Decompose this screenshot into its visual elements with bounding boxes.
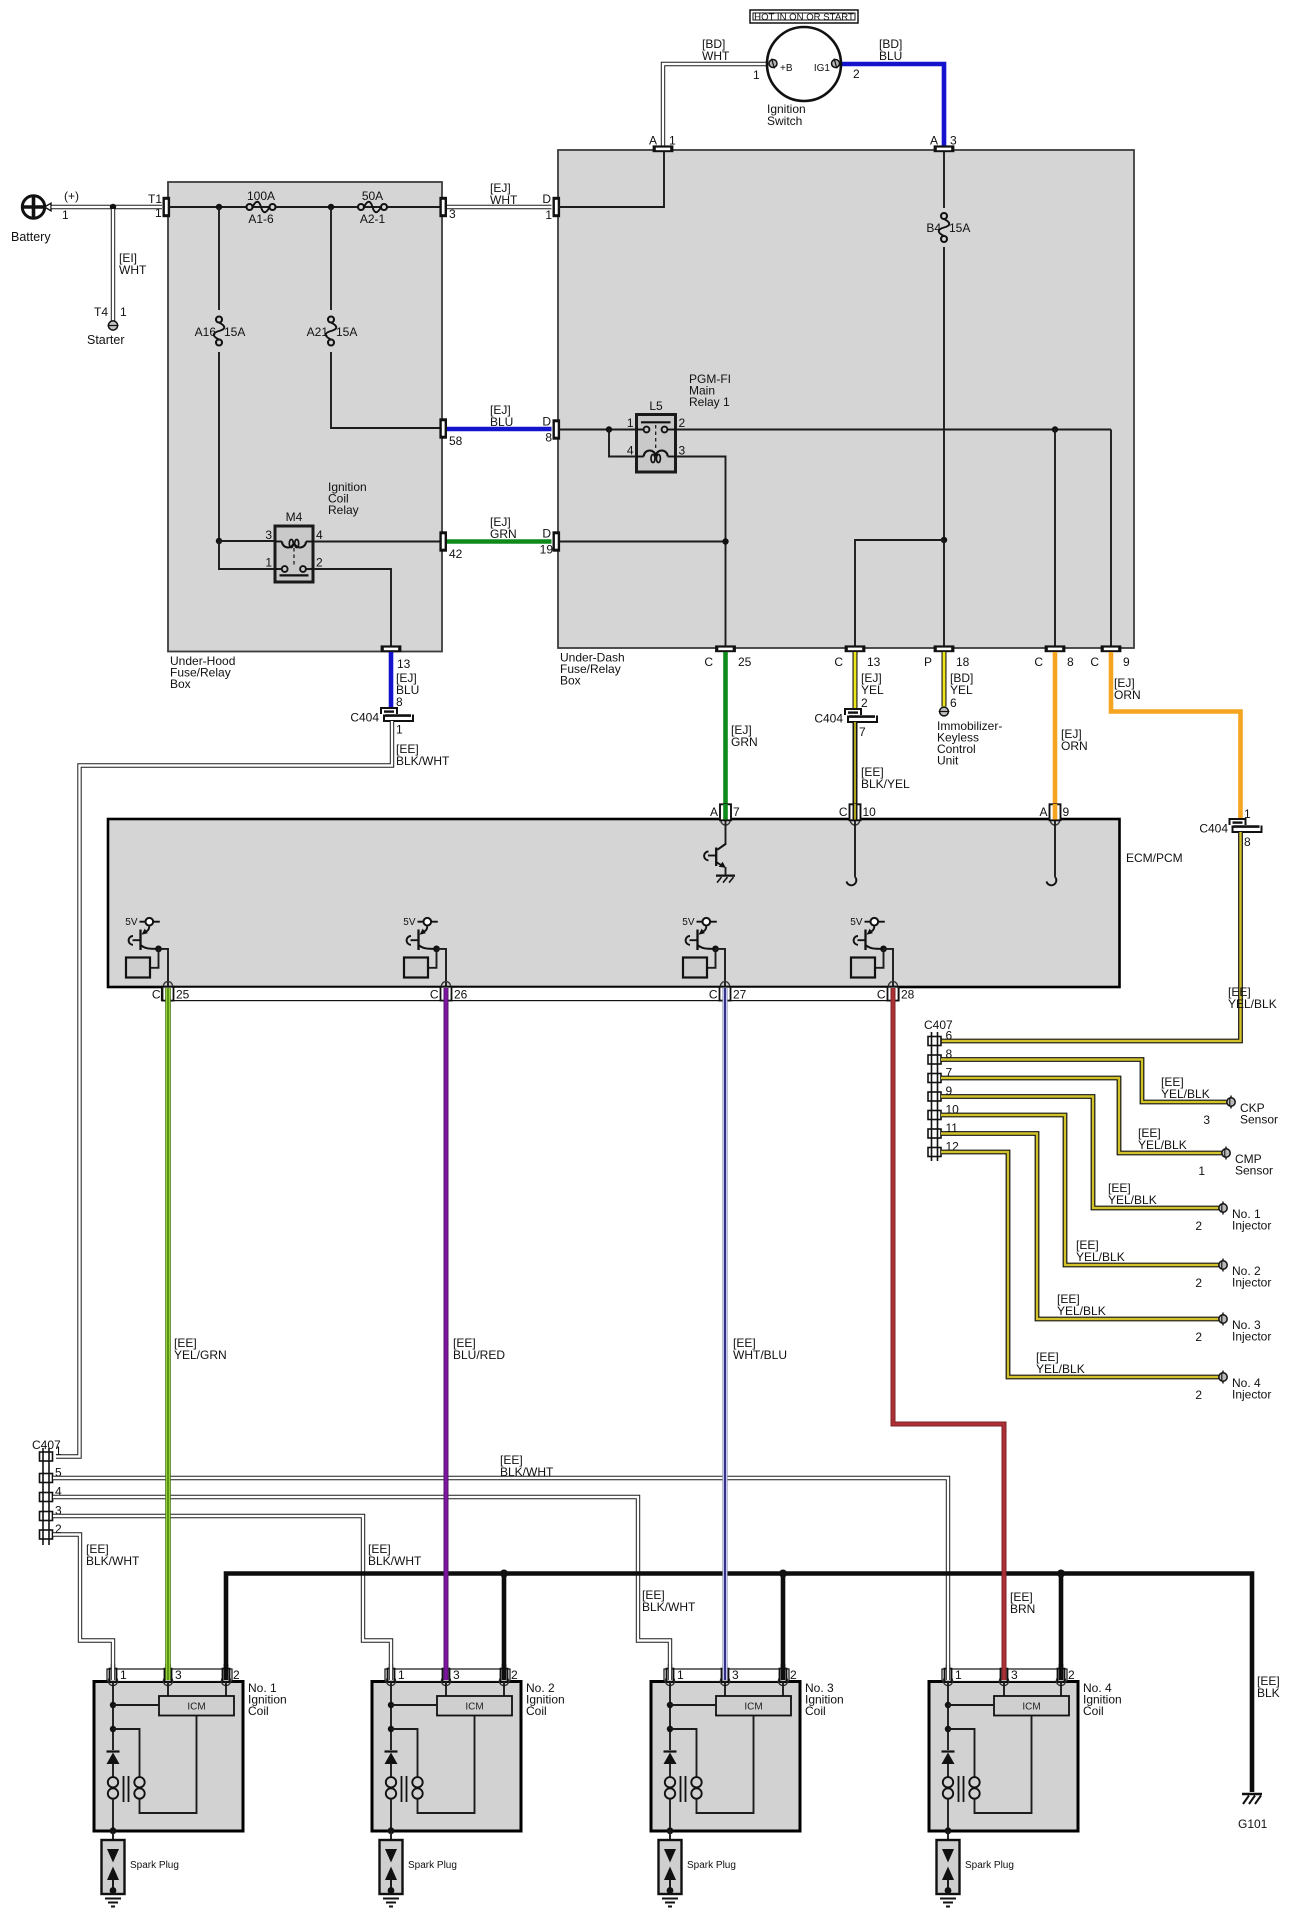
ICM module No.3: [724, 1682, 726, 1696]
svg-text:YEL/BLK: YEL/BLK: [1076, 1250, 1125, 1264]
pin 3 No.2 coil: [441, 1676, 450, 1685]
svg-text:ICM: ICM: [187, 1702, 205, 1713]
svg-text:10: 10: [863, 805, 877, 819]
wire B4 fuse down to junction: [943, 247, 945, 540]
wire [BD] YEL P18 to immobilizer: [942, 652, 947, 707]
svg-text:1: 1: [545, 208, 552, 222]
node junction bus No.2: [500, 1570, 508, 1578]
svg-text:25: 25: [738, 655, 752, 669]
pin 2 No.4 coil: [1056, 1676, 1065, 1685]
svg-text:1: 1: [677, 1668, 684, 1682]
svg-text:5V: 5V: [125, 917, 138, 928]
curl base driver 1: [129, 936, 133, 945]
wire node to secondary No.3: [670, 1729, 697, 1777]
wire No.3 coil pin 2 drop: [781, 1574, 786, 1681]
node junction at A2-1 branch: [328, 204, 334, 210]
wire junction down to P18: [943, 540, 945, 650]
wire node to ICM No.1: [113, 1704, 159, 1706]
monitor box driver 1: [126, 958, 150, 978]
wire [BD] WHT from ignition switch +B to connector A1: [663, 64, 769, 146]
connector A1 top edge: [653, 145, 674, 152]
svg-text:A16: A16: [195, 325, 217, 339]
wire node to pin C125: [159, 949, 169, 986]
svg-text:8: 8: [1244, 835, 1251, 849]
wire to relay M4 pin 3: [219, 540, 275, 542]
transistor Q3 driver: [701, 926, 707, 934]
wire node to monitor box driver 2: [428, 949, 437, 968]
node junction battery/starter: [110, 204, 116, 210]
curl base A17: [704, 852, 708, 861]
wire pin1 feed No.4: [947, 1682, 949, 1750]
svg-text:3: 3: [175, 1668, 182, 1682]
transistor driver A17: [725, 821, 727, 845]
svg-text:ICM: ICM: [1022, 1702, 1040, 1713]
wire fuse A21 branch: [330, 207, 332, 310]
svg-text:Spark Plug: Spark Plug: [408, 1860, 457, 1871]
svg-text:BLU: BLU: [490, 415, 513, 429]
svg-text:G101: G101: [1238, 1817, 1268, 1831]
connector D8 left edge: [553, 419, 561, 439]
transformer primary No.4: [943, 1777, 953, 1787]
monitor box driver 3: [683, 958, 707, 978]
wire [EE] BLU/RED C126 to No.2 coil pin 3: [444, 988, 449, 1680]
svg-text:1: 1: [120, 305, 127, 319]
connector strip No.3 coil: [664, 1669, 789, 1682]
wire [EJ] YEL C13 to C404: [853, 652, 858, 709]
curl base driver 4: [854, 936, 858, 945]
svg-text:BLK/WHT: BLK/WHT: [500, 1465, 554, 1479]
svg-text:15A: 15A: [949, 221, 970, 235]
connector C404 pin 8 to 1: [381, 708, 397, 714]
ignition coil No.4 box: [929, 1682, 1078, 1832]
ignition coil No.2 box: [372, 1682, 521, 1832]
wire stub pin 2 No.4: [1059, 1664, 1064, 1680]
wire stub pin 1 No.3: [668, 1664, 672, 1680]
svg-text:42: 42: [449, 547, 463, 561]
wire secondary to ICM No.2: [418, 1716, 475, 1814]
ground spark plug No.1: [105, 1898, 121, 1900]
wire fuse A16 branch: [218, 207, 220, 310]
svg-text:Relay 1: Relay 1: [689, 395, 730, 409]
wire stub pin 2 No.1: [224, 1664, 229, 1680]
starter motor: [108, 321, 117, 330]
wire [EJ] ORN C8 to ECM A19: [1053, 652, 1058, 804]
svg-text:C: C: [1090, 655, 1099, 669]
svg-text:1: 1: [753, 68, 760, 82]
ECM bottom connector strip: [162, 987, 900, 1000]
svg-text:Injector: Injector: [1232, 1330, 1271, 1344]
wire node to pin C128: [884, 949, 894, 986]
svg-text:IG1: IG1: [814, 63, 831, 74]
connector D1 left edge: [553, 197, 561, 217]
wire C110 internal: [854, 821, 856, 878]
wire stub pin 3 No.1: [165, 1664, 171, 1680]
wire [EJ] GRN C25 to ECM A17: [723, 652, 728, 804]
transistor Q2 driver: [422, 926, 428, 934]
wire [EE] BLK/YEL C404 to ECM C110: [853, 722, 858, 804]
pin 3 No.3 coil: [720, 1676, 729, 1685]
curl A19: [1047, 878, 1057, 886]
curl C110: [847, 878, 857, 886]
ground spark plug No.3: [662, 1898, 678, 1900]
ground A17 emitter: [716, 874, 735, 876]
svg-text:GRN: GRN: [490, 527, 517, 541]
monitor box driver 4: [851, 958, 875, 978]
connector C25 bottom edge: [715, 645, 736, 652]
svg-text:C404: C404: [350, 711, 379, 725]
svg-text:(+): (+): [64, 189, 79, 203]
terminal No.1 injector pin 2: [1222, 1202, 1224, 1215]
svg-text:A: A: [930, 134, 938, 148]
wire stub pin 1 No.4: [946, 1664, 950, 1680]
svg-text:19: 19: [540, 543, 554, 557]
svg-text:YEL/BLK: YEL/BLK: [1057, 1304, 1106, 1318]
transformer secondary No.3: [691, 1777, 701, 1787]
svg-text:BLK/WHT: BLK/WHT: [642, 1600, 696, 1614]
wire [EE] YEL/BLK pin 7 to CMP sensor: [941, 1078, 1222, 1153]
wire [EE] BLK ground bus: [226, 1574, 1252, 1793]
svg-text:BLK/WHT: BLK/WHT: [396, 754, 450, 768]
svg-text:C: C: [1034, 655, 1043, 669]
svg-text:1: 1: [955, 1668, 962, 1682]
svg-text:3: 3: [950, 134, 957, 148]
node output driver 3: [712, 946, 719, 953]
wire [EJ] GRN to under-dash D19: [447, 539, 552, 544]
wire [EE] YEL/BLK pin 12 to No.4 injector: [941, 1152, 1219, 1377]
svg-text:8: 8: [396, 695, 403, 709]
connector T1 pin 1: [163, 197, 171, 217]
transformer core No.3: [680, 1776, 682, 1802]
diode No.4: [942, 1750, 955, 1752]
svg-text:1: 1: [1244, 807, 1251, 821]
svg-text:Coil: Coil: [1083, 1704, 1104, 1718]
wire D1 to A1: [559, 152, 664, 207]
svg-text:2: 2: [1195, 1388, 1202, 1402]
fuse 100A A1-6: [247, 204, 253, 210]
wire node to monitor box driver 4: [875, 949, 884, 968]
svg-text:1: 1: [62, 208, 69, 222]
connector A3 top edge: [934, 145, 955, 152]
fuse A16 15A: [216, 317, 222, 323]
svg-text:Starter: Starter: [87, 333, 125, 347]
ignition coil No.1 box: [94, 1682, 243, 1832]
svg-text:7: 7: [733, 805, 740, 819]
connector C407 pin 5: [40, 1474, 53, 1483]
fuse A21 15A: [328, 317, 334, 323]
svg-text:YEL/GRN: YEL/GRN: [174, 1348, 227, 1362]
terminal No.4 injector pin 2: [1222, 1371, 1224, 1384]
ignition coil No.3 box: [651, 1682, 800, 1832]
svg-text:ORN: ORN: [1061, 739, 1088, 753]
wire pin1 feed No.2: [390, 1682, 392, 1750]
wire M4 pin 4 to connector 42: [313, 541, 440, 543]
ground G101: [1242, 1793, 1262, 1796]
connector C404 pin 1 to 8: [1230, 819, 1246, 825]
pin 2 No.1 coil: [221, 1676, 230, 1685]
emitter with arrow A17: [716, 862, 724, 867]
wire stub pin 3 No.3: [722, 1664, 727, 1680]
transistor Q1 driver: [144, 926, 150, 934]
svg-text:A21: A21: [307, 325, 329, 339]
svg-text:2: 2: [853, 67, 860, 81]
connector strip No.4 coil: [942, 1669, 1067, 1682]
svg-text:YEL/BLK: YEL/BLK: [1138, 1138, 1187, 1152]
node junction at A1-6 branch: [216, 204, 222, 210]
svg-text:2: 2: [1195, 1276, 1202, 1290]
connector strip No.2 coil: [385, 1669, 510, 1682]
node pin1/secondary No.4: [945, 1726, 951, 1732]
connector C127 ECM bottom: [720, 982, 729, 991]
monitor box driver 2: [404, 958, 428, 978]
transistor Q4 driver: [869, 926, 875, 934]
svg-text:Battery: Battery: [11, 230, 51, 244]
svg-text:25: 25: [176, 988, 190, 1002]
wire [EI] WHT to starter: [111, 209, 115, 321]
svg-text:3: 3: [265, 528, 272, 542]
svg-text:1: 1: [155, 206, 162, 220]
svg-text:7: 7: [859, 725, 866, 739]
svg-text:Injector: Injector: [1232, 1388, 1271, 1402]
svg-text:YEL/BLK: YEL/BLK: [1036, 1362, 1085, 1376]
wire coil to spark plug No.1: [112, 1831, 114, 1849]
connector 3 right edge: [439, 197, 447, 217]
svg-text:27: 27: [733, 988, 747, 1002]
wire to relay M4 pin 1: [219, 541, 275, 569]
node pin1/ICM No.1: [110, 1702, 116, 1708]
wire secondary to ICM No.4: [975, 1716, 1032, 1814]
ICM module No.2: [445, 1682, 447, 1696]
connector C407 pin 11: [928, 1129, 941, 1138]
svg-text:3: 3: [1203, 1113, 1210, 1127]
node pin1/secondary No.3: [667, 1726, 673, 1732]
svg-text:P: P: [924, 655, 932, 669]
wire D19 to junction on C25 drop: [559, 541, 726, 543]
svg-text:2: 2: [511, 1668, 518, 1682]
svg-text:Spark Plug: Spark Plug: [965, 1860, 1014, 1871]
svg-text:Switch: Switch: [767, 114, 802, 128]
connector C407 pin 10: [928, 1111, 941, 1120]
svg-text:5V: 5V: [850, 917, 863, 928]
svg-text:B4: B4: [926, 221, 941, 235]
svg-text:2: 2: [790, 1668, 797, 1682]
ICM module No.4: [1003, 1682, 1005, 1696]
wire node to ICM No.3: [670, 1704, 716, 1706]
connector C407 right body: [931, 1032, 933, 1161]
spark plug No.1: [102, 1840, 125, 1894]
spark plug No.4: [937, 1840, 960, 1894]
ground spark plug No.4: [940, 1898, 956, 1900]
wire node to monitor box driver 3: [707, 949, 716, 968]
svg-text:ORN: ORN: [1114, 688, 1141, 702]
svg-text:28: 28: [901, 988, 915, 1002]
svg-text:1: 1: [120, 1668, 127, 1682]
wire A19 internal: [1054, 821, 1056, 878]
svg-text:Box: Box: [170, 677, 191, 691]
spark plug No.3: [659, 1840, 682, 1894]
connector C407 pin 12: [928, 1148, 941, 1157]
svg-text:3: 3: [679, 444, 686, 458]
wire [BD] BLU from ignition switch IG1 to connector A3: [840, 64, 945, 146]
wire battery positive to T1: [52, 205, 163, 209]
svg-text:13: 13: [867, 655, 881, 669]
svg-text:YEL: YEL: [950, 683, 973, 697]
node coil output No.3: [667, 1827, 674, 1834]
wire [EE] YEL/BLK pin 10 to No.2 injector: [941, 1115, 1219, 1265]
svg-text:Sensor: Sensor: [1240, 1113, 1278, 1127]
wire stub pin 2 No.3: [781, 1664, 786, 1680]
node output driver 1: [155, 946, 162, 953]
svg-text:ICM: ICM: [465, 1702, 483, 1713]
collector to output node driver 4: [866, 946, 884, 949]
wire stub pin 1 No.1: [111, 1664, 115, 1680]
wire node to secondary No.2: [391, 1729, 418, 1777]
svg-text:1: 1: [55, 1444, 62, 1458]
under-dash fuse/relay box: [558, 150, 1134, 648]
connector C407 pin 9: [928, 1092, 941, 1101]
svg-text:C: C: [430, 988, 439, 1002]
curl base driver 3: [686, 936, 690, 945]
svg-text:1: 1: [265, 556, 272, 570]
svg-text:1: 1: [398, 1668, 405, 1682]
wire L5 pin 3 to C25: [676, 457, 726, 651]
svg-text:9: 9: [1123, 655, 1130, 669]
svg-text:6: 6: [946, 1029, 953, 1043]
ground spark plug No.2: [383, 1898, 399, 1900]
svg-text:YEL/BLK: YEL/BLK: [1161, 1087, 1210, 1101]
svg-text:BLK/WHT: BLK/WHT: [368, 1554, 422, 1568]
connector D19 left edge: [553, 531, 561, 551]
connector C407 pin 7: [928, 1074, 941, 1083]
svg-text:A: A: [710, 805, 718, 819]
svg-text:D: D: [542, 192, 551, 206]
collector to output node driver 3: [698, 946, 716, 949]
transformer core No.4: [958, 1776, 960, 1802]
wire secondary to ICM No.3: [697, 1716, 754, 1814]
svg-text:L5: L5: [649, 399, 663, 413]
connector C407 pin 1: [40, 1452, 53, 1461]
relay L5 PGM-FI main relay 1: [637, 415, 676, 473]
svg-text:9: 9: [1063, 805, 1070, 819]
wire M4 pin 2 to connector 13: [313, 569, 391, 650]
relay M4 ignition coil relay: [275, 526, 313, 582]
svg-text:2: 2: [679, 416, 686, 430]
connector C13 bottom edge: [845, 645, 866, 652]
svg-text:BLK/YEL: BLK/YEL: [861, 777, 910, 791]
wire coil to spark plug No.2: [390, 1831, 392, 1849]
svg-text:YEL/BLK: YEL/BLK: [1108, 1193, 1157, 1207]
wire [EJ] BLU to under-dash D8: [447, 427, 552, 432]
node junction A16/M4: [216, 538, 222, 544]
svg-text:C: C: [152, 988, 161, 1002]
wire node to monitor box driver 1: [150, 949, 159, 968]
svg-text:Injector: Injector: [1232, 1219, 1271, 1233]
connector A17 ECM top: [721, 816, 730, 825]
connector C407 pin 4: [40, 1493, 53, 1502]
svg-text:58: 58: [449, 434, 463, 448]
svg-text:8: 8: [545, 431, 552, 445]
svg-text:50A: 50A: [362, 189, 383, 203]
node junction B4/C13: [941, 537, 947, 543]
under-hood fuse/relay box: [168, 182, 442, 652]
svg-text:ICM: ICM: [744, 1702, 762, 1713]
svg-text:D: D: [542, 527, 551, 541]
wire [EE] BLK/YEL through C110: [853, 804, 858, 820]
svg-text:Coil: Coil: [526, 1704, 547, 1718]
svg-text:Injector: Injector: [1232, 1276, 1271, 1290]
svg-text:C: C: [834, 655, 843, 669]
wire No.4 coil pin 2 drop: [1059, 1574, 1064, 1681]
node pin1/secondary No.1: [110, 1726, 116, 1732]
svg-text:3: 3: [732, 1668, 739, 1682]
pin 1 No.2 coil: [386, 1676, 395, 1685]
wire down to C8: [1054, 430, 1056, 651]
wire stub pin 2 No.2: [502, 1664, 507, 1680]
svg-text:BLK: BLK: [1257, 1686, 1280, 1700]
connector C407 pin 3: [40, 1512, 53, 1521]
terminal IG1 pin 2: [832, 60, 840, 68]
svg-text:2: 2: [1068, 1668, 1075, 1682]
connector 58 right edge: [439, 418, 447, 438]
node coil output No.2: [388, 1827, 395, 1834]
svg-text:BLK/WHT: BLK/WHT: [86, 1554, 140, 1568]
transformer core No.1: [123, 1776, 125, 1802]
wire [EE] BLK/WHT pin 5 to No.4 coil pin 1: [53, 1478, 948, 1680]
connector strip No.1 coil: [107, 1669, 232, 1682]
fuse B4 15A: [941, 213, 947, 219]
svg-text:C: C: [877, 988, 886, 1002]
terminal No.2 injector pin 2: [1222, 1259, 1224, 1272]
svg-text:WHT/BLU: WHT/BLU: [733, 1348, 787, 1362]
wire [EE] BLK/WHT from C404 to C407 pin 1: [56, 721, 392, 1457]
connector C126 ECM bottom: [441, 982, 450, 991]
svg-text:HOT IN ON OR START: HOT IN ON OR START: [754, 12, 854, 23]
wire [EE] YEL/GRN C125 to No.1 coil pin 3: [165, 988, 171, 1680]
wire stub pin 3 No.4: [1002, 1664, 1007, 1680]
svg-text:1: 1: [627, 416, 634, 430]
connector 13 bottom edge: [381, 645, 402, 652]
svg-text:18: 18: [956, 655, 970, 669]
wire junction to C13 drop: [855, 540, 944, 650]
svg-text:Relay: Relay: [328, 503, 359, 517]
svg-text:1: 1: [396, 723, 403, 737]
wire node to ICM No.4: [948, 1704, 994, 1706]
node junction D8 branch: [606, 426, 612, 432]
svg-text:Spark Plug: Spark Plug: [687, 1860, 736, 1871]
wire [EJ] WHT to under-dash D1: [447, 205, 552, 209]
svg-text:13: 13: [397, 657, 411, 671]
connector C128 ECM bottom: [888, 982, 897, 991]
connector C125 ECM bottom: [163, 982, 172, 991]
wire pin1 feed No.3: [669, 1682, 671, 1750]
svg-text:15A: 15A: [336, 325, 357, 339]
svg-text:WHT: WHT: [702, 49, 730, 63]
terminal CMP sensor pin 1: [1225, 1147, 1227, 1160]
wire [EE] BLK/WHT pin 2 to No.1 coil pin 1: [53, 1535, 113, 1681]
diode No.2: [385, 1750, 398, 1752]
node output driver 4: [880, 946, 887, 953]
node coil output No.4: [945, 1827, 952, 1834]
wire node to pin C126: [437, 949, 447, 986]
svg-text:ECM/PCM: ECM/PCM: [1126, 851, 1183, 865]
terminal +B pin 1: [769, 60, 777, 68]
svg-text:6: 6: [950, 696, 957, 710]
node junction bus No.4: [1057, 1570, 1065, 1578]
svg-text:Spark Plug: Spark Plug: [130, 1860, 179, 1871]
svg-text:A1-6: A1-6: [248, 212, 274, 226]
connector C407 pin 6: [928, 1037, 941, 1046]
wire [EE] YEL/BLK C404 to C407 pin 6: [941, 832, 1241, 1041]
svg-text:C: C: [839, 805, 848, 819]
